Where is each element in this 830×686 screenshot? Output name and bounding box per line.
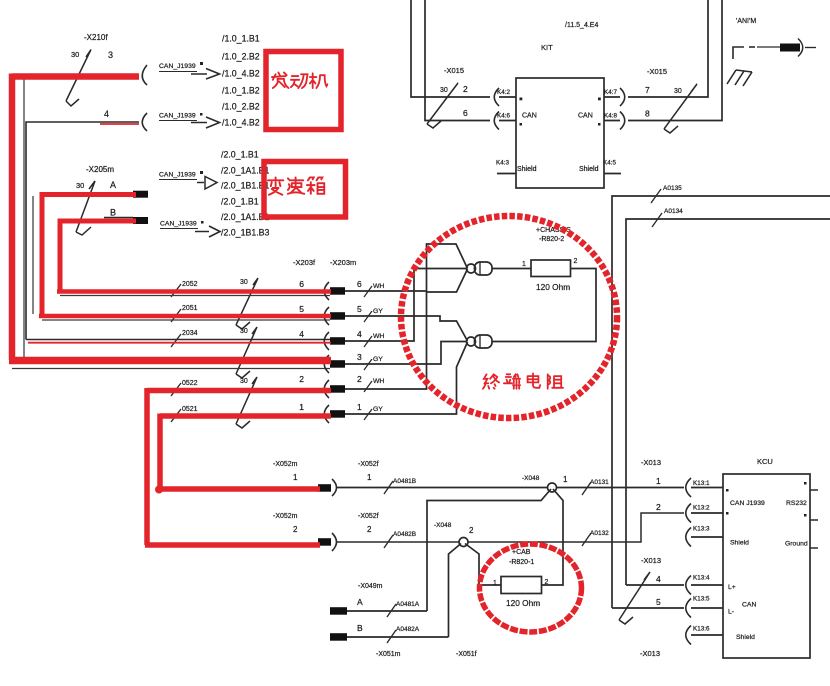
connector arc X210f pin3 <box>142 65 147 85</box>
net list /2.0 gearbox <box>221 150 270 238</box>
svg-text:K13:6: K13:6 <box>693 626 710 633</box>
svg-text:120 Ohm: 120 Ohm <box>506 598 540 608</box>
connector X203 row6: arc and tip <box>324 282 329 300</box>
wire pin5 GY to splice S2 <box>345 316 468 341</box>
KIT left feed wire K4:6 <box>425 0 490 121</box>
splice bullet S1 <box>467 262 493 275</box>
svg-text:K13:3: K13:3 <box>693 526 710 533</box>
svg-text:CAN_J1939: CAN_J1939 <box>159 172 196 179</box>
switch 30 rows 2-1 <box>236 377 257 428</box>
connector X049m pin A tip <box>330 607 347 615</box>
resistor R820-1 <box>493 549 549 608</box>
connector X203 row4 <box>324 332 329 350</box>
svg-text:K4:3: K4:3 <box>496 160 509 167</box>
label CAN_J1939 - (gearbox) <box>160 221 220 238</box>
svg-text:-X048: -X048 <box>522 475 540 482</box>
wire A0481B / A0131 <box>337 487 684 489</box>
svg-text:1: 1 <box>563 475 568 484</box>
svg-text:B: B <box>357 623 363 633</box>
connector X203 row2 <box>324 380 329 398</box>
svg-text:/1.0_2.B2: /1.0_2.B2 <box>222 102 260 112</box>
red bus X203 row6 2052 highlight <box>57 289 331 294</box>
svg-text:3: 3 <box>357 352 362 362</box>
svg-text:Shield: Shield <box>736 634 755 641</box>
label WH row4 <box>364 333 384 347</box>
svg-text:L-: L- <box>728 609 734 616</box>
svg-text:30: 30 <box>240 378 248 385</box>
svg-text:CAN_J1939: CAN_J1939 <box>159 63 196 70</box>
switch 30 at -X205m <box>76 181 95 235</box>
svg-text:WH: WH <box>373 378 384 385</box>
svg-text:A0481B: A0481B <box>393 478 416 485</box>
label WH row2 <box>364 378 384 392</box>
svg-text:2: 2 <box>656 502 661 512</box>
svg-text:GY: GY <box>373 308 383 315</box>
svg-text:5: 5 <box>656 597 661 607</box>
svg-text:-R820-2: -R820-2 <box>539 236 564 243</box>
red bus 0522 to X052-2 <box>145 388 331 545</box>
svg-text:-X203m: -X203m <box>330 258 356 267</box>
svg-text:-X052m: -X052m <box>273 513 298 520</box>
label GY row3 <box>364 356 383 370</box>
svg-text:2: 2 <box>545 579 549 586</box>
red bus X210f pin3 highlight <box>12 74 139 361</box>
svg-text:/1.0_4.B2: /1.0_4.B2 <box>222 69 260 79</box>
svg-text:K4:7: K4:7 <box>604 89 617 96</box>
switch 30 at X015 left <box>427 83 458 128</box>
svg-text:-X052m: -X052m <box>273 461 298 468</box>
K13 wires incoming <box>612 585 684 608</box>
svg-text:A: A <box>110 180 116 190</box>
wire X015-7 up <box>628 0 708 97</box>
svg-text:-X052f: -X052f <box>358 461 379 468</box>
svg-text:+CAB: +CAB <box>512 549 531 556</box>
wire label A0135 <box>651 185 682 203</box>
connector arc K4:6 <box>494 112 499 130</box>
svg-text:7: 7 <box>645 85 650 95</box>
svg-text:/11.5_4.E4: /11.5_4.E4 <box>565 22 598 29</box>
svg-text:2: 2 <box>574 258 578 265</box>
wire label A0481A <box>387 601 420 617</box>
wire stub top right <box>805 47 816 49</box>
svg-text:2: 2 <box>357 374 362 384</box>
svg-text:0521: 0521 <box>182 406 198 413</box>
svg-text:0522: 0522 <box>182 380 198 387</box>
connector X052 row2 <box>318 538 331 546</box>
svg-text:CAN: CAN <box>578 113 593 120</box>
wire R820-2 pin2 loop to splice S2 <box>492 269 596 342</box>
connector arc X210f pin4 <box>142 113 147 131</box>
svg-text:-R820-1: -R820-1 <box>509 559 534 566</box>
label CAN_J1939 + (engine) <box>159 62 220 79</box>
labels X052 row2 <box>273 513 379 534</box>
ferrite pin top right <box>757 46 780 48</box>
left pin numbers X203f <box>299 279 304 412</box>
wire label A0131 <box>582 479 609 495</box>
svg-text:'ANI'M: 'ANI'M <box>736 18 756 25</box>
red frame engine <box>266 52 341 130</box>
switch 30 at X015 right <box>664 84 697 133</box>
node X048-2 right branch down to R820-1 pin1 <box>465 544 501 586</box>
svg-text:GY: GY <box>373 356 383 363</box>
red bus X205m pin B highlight <box>60 219 136 293</box>
switch 30 rows 6-5 <box>236 278 258 329</box>
wire A0135 <box>612 196 830 608</box>
red bus X203 row3 highlight <box>9 357 331 365</box>
svg-text:30: 30 <box>440 87 448 94</box>
wire label 2034 <box>171 330 198 347</box>
svg-text:2: 2 <box>367 525 372 534</box>
labels -X013 top group <box>641 458 661 512</box>
connector K13:6 <box>686 626 691 645</box>
red bus X205m pin A highlight <box>42 192 136 318</box>
svg-text:A0482B: A0482B <box>393 531 416 538</box>
svg-text:-X205m: -X205m <box>86 165 114 174</box>
svg-text:Ground: Ground <box>785 541 808 548</box>
wire label A0482A <box>387 626 420 643</box>
wire 2034 black <box>26 339 330 341</box>
svg-text:WH: WH <box>373 283 384 290</box>
wire A0134 <box>626 219 830 585</box>
wire pin2 WH to splice S1 <box>345 269 468 389</box>
wires KIT right side <box>604 97 620 121</box>
svg-text:/1.0_2.B2: /1.0_2.B2 <box>222 52 260 62</box>
connector K13:4 <box>686 576 691 595</box>
red frame gearbox <box>264 162 346 218</box>
svg-text:/1.0_1.B1: /1.0_1.B1 <box>222 34 260 44</box>
svg-text:30: 30 <box>71 50 79 59</box>
svg-text:30: 30 <box>76 181 84 190</box>
svg-text:30: 30 <box>240 279 248 286</box>
labels -X013 mid group <box>641 556 661 607</box>
black wire stub pin B <box>104 217 133 219</box>
svg-text:CAN_J1939: CAN_J1939 <box>159 113 196 120</box>
wire label A0481B <box>384 478 416 494</box>
svg-text:K13:1: K13:1 <box>693 480 710 487</box>
svg-text:K13:4: K13:4 <box>693 575 710 582</box>
svg-text:-X015: -X015 <box>647 67 667 76</box>
svg-text:1: 1 <box>357 402 362 412</box>
connector K13:5 <box>686 599 691 618</box>
wire A0482B / A0132 <box>337 513 684 542</box>
wire label 0521 <box>171 406 198 422</box>
svg-text:CAN: CAN <box>522 113 537 120</box>
net list /1.0 engine <box>222 34 260 128</box>
svg-text:A0132: A0132 <box>590 530 609 537</box>
svg-text:-X015: -X015 <box>444 66 464 75</box>
red text gearbox: bian su xiang <box>268 177 324 194</box>
labels X052 row1 <box>273 461 379 482</box>
connector X203 row3 <box>324 355 329 373</box>
svg-text:2: 2 <box>299 374 304 384</box>
pin tip X205m B <box>133 217 148 224</box>
KCU right stubs <box>810 490 818 548</box>
svg-text:A0482A: A0482A <box>396 626 420 633</box>
svg-text:RS232: RS232 <box>786 500 807 507</box>
svg-text:8: 8 <box>645 109 650 119</box>
wire pin4 WH to splice S1 <box>345 269 468 342</box>
svg-text:A0135: A0135 <box>663 185 682 192</box>
right pin numbers X203m <box>357 279 362 412</box>
svg-text:-X049m: -X049m <box>358 583 383 590</box>
svg-text:5: 5 <box>357 304 362 314</box>
svg-text:A0134: A0134 <box>664 208 683 215</box>
svg-text:3: 3 <box>108 50 113 60</box>
label GY row1 <box>364 406 383 420</box>
splice bullet S2 <box>467 335 493 348</box>
red ellipse terminal resistor R820-2 <box>401 216 617 418</box>
label -X015 right <box>645 67 682 119</box>
svg-text:4: 4 <box>656 574 661 584</box>
svg-text:CAN: CAN <box>742 602 756 609</box>
svg-text:CAN J1939: CAN J1939 <box>730 500 765 507</box>
connector -X205m labels <box>76 165 116 218</box>
wires arcs into KIT box <box>499 97 516 121</box>
svg-text:2: 2 <box>463 84 468 94</box>
connector arc K4:8 <box>620 112 625 130</box>
svg-text:-X052f: -X052f <box>358 513 379 520</box>
second thin vertical black wire <box>32 196 34 314</box>
label CAN_J1939 + (gearbox) <box>159 171 217 189</box>
pin tip X205m A <box>133 191 148 198</box>
dashed bracket top right <box>733 47 744 59</box>
svg-text:/2.0_1B1.B3: /2.0_1B1.B3 <box>221 228 270 238</box>
wire label A0482B <box>384 531 416 548</box>
chassis ground top right <box>727 70 752 86</box>
label -X015 left <box>440 66 468 118</box>
svg-text:-X013: -X013 <box>641 458 661 467</box>
svg-text:4: 4 <box>299 329 304 339</box>
connector X049m pin B tip <box>330 633 347 641</box>
svg-text:K13:5: K13:5 <box>693 596 710 603</box>
svg-text:K4:5: K4:5 <box>603 160 616 167</box>
wire label A0134 <box>652 208 683 227</box>
wire pin3 GY to splice S2 <box>345 342 468 365</box>
svg-text:1: 1 <box>293 473 298 482</box>
svg-text:-X051f: -X051f <box>456 651 477 658</box>
KCU inner labels <box>726 482 808 641</box>
svg-text:K13:2: K13:2 <box>693 505 710 512</box>
svg-text:Shield: Shield <box>730 540 749 547</box>
svg-text:1: 1 <box>522 261 526 268</box>
svg-text:2051: 2051 <box>182 305 198 312</box>
wire label 2052 <box>171 281 198 297</box>
K13 labels <box>693 480 710 633</box>
svg-text:/2.0_1.B1: /2.0_1.B1 <box>221 150 259 160</box>
label WH row6 <box>364 283 384 297</box>
node X048-1 labels <box>522 475 568 484</box>
node X048-1 right branch down to R820-1 pin2 <box>542 489 564 585</box>
svg-text:1: 1 <box>299 402 304 412</box>
node X048-1 circle <box>548 483 557 492</box>
KIT box <box>516 78 604 188</box>
svg-text:Shield: Shield <box>517 166 537 173</box>
svg-text:1: 1 <box>493 580 497 587</box>
svg-text:K4:8: K4:8 <box>604 113 617 120</box>
connector labels -X203f -X203m <box>293 258 356 267</box>
KIT box inner labels <box>517 98 601 174</box>
connector -X210f label <box>71 33 113 119</box>
svg-text:5: 5 <box>299 304 304 314</box>
KCU box <box>723 474 810 658</box>
svg-text:GY: GY <box>373 406 383 413</box>
svg-text:L+: L+ <box>728 584 736 591</box>
labels X049m <box>357 583 383 633</box>
black wire underlines left rows <box>12 296 330 369</box>
connector X203 row1 <box>324 405 329 423</box>
svg-text:1: 1 <box>656 476 661 486</box>
resistor R820-2 <box>522 227 578 292</box>
switch at X013 4-5 <box>619 572 650 624</box>
red text terminal resistor: zhong duan dian zu <box>483 373 563 388</box>
wire label 0522 <box>171 380 198 396</box>
red corner dot X052-1 <box>155 486 163 494</box>
svg-text:/1.0_4.B2: /1.0_4.B2 <box>222 118 260 128</box>
svg-text:CAN_J1939: CAN_J1939 <box>160 221 197 228</box>
svg-text:-X203f: -X203f <box>293 258 316 267</box>
red thin X203 row4 2034 highlight <box>28 342 331 344</box>
svg-text:-X051m: -X051m <box>376 651 401 658</box>
svg-text:4: 4 <box>104 109 109 119</box>
KIT box title <box>541 22 598 52</box>
svg-text:120 Ohm: 120 Ohm <box>536 282 570 292</box>
svg-text:B: B <box>110 208 116 218</box>
switch 30 at -X210f <box>66 50 91 107</box>
labels K4 right <box>603 89 617 167</box>
svg-text:30: 30 <box>674 88 682 95</box>
svg-text:2034: 2034 <box>182 330 198 337</box>
svg-text:Shield: Shield <box>579 166 599 173</box>
svg-text:KCU: KCU <box>757 457 773 466</box>
wire A0481A up to node X048-1 <box>347 489 551 611</box>
svg-text:4: 4 <box>357 329 362 339</box>
switch 30 rows 4-3 <box>236 327 257 378</box>
svg-text:2052: 2052 <box>182 281 198 288</box>
svg-text:-X013: -X013 <box>641 556 661 565</box>
svg-text:A: A <box>357 597 363 607</box>
svg-text:K4:2: K4:2 <box>497 89 510 96</box>
svg-text:1: 1 <box>367 473 372 482</box>
svg-text:/2.0_1.B1: /2.0_1.B1 <box>221 197 259 207</box>
red ellipse terminal resistor R820-1 <box>480 544 582 632</box>
connector X203 row5 <box>324 307 329 325</box>
KIT shield stub wires <box>497 173 621 175</box>
connector arc K4:2 <box>494 88 499 106</box>
svg-text:6: 6 <box>463 108 468 118</box>
wire pin6 WH to splice S1 <box>345 244 468 291</box>
connector K13:3 <box>686 528 691 547</box>
KIT left feed wire K4:2 <box>411 0 490 97</box>
svg-text:6: 6 <box>357 279 362 289</box>
node X048-2 labels <box>434 522 474 535</box>
svg-text:30: 30 <box>240 328 248 335</box>
wire X015-8 up <box>628 0 722 121</box>
connector X052 row1: tip and arc <box>318 484 331 492</box>
wire S1 to R820-2 <box>492 268 531 270</box>
svg-text:2: 2 <box>469 526 474 535</box>
svg-text:-X210f: -X210f <box>84 33 108 42</box>
wire label A0132 <box>582 530 609 546</box>
svg-text:KIT: KIT <box>541 43 553 52</box>
wire CAN+ engine pin3 black underlay <box>23 78 25 360</box>
connector arc K4:7 <box>620 88 625 106</box>
svg-text:-X013: -X013 <box>640 649 660 658</box>
label CAN_J1939 - (engine) <box>159 113 220 129</box>
label GY row5 <box>364 308 383 322</box>
connector K13:1 <box>686 478 691 497</box>
red bus 0521 to X052-1 <box>158 414 331 490</box>
node X048-2 circle <box>459 538 468 547</box>
connector arc top right <box>798 39 803 57</box>
svg-text:-X048: -X048 <box>434 522 452 529</box>
svg-text:A0481A: A0481A <box>396 601 420 608</box>
svg-text:A0131: A0131 <box>590 479 609 486</box>
svg-text:/1.0_1.B2: /1.0_1.B2 <box>222 86 260 96</box>
wire label 2051 <box>171 305 198 322</box>
red text engine: fa dong ji <box>272 72 327 88</box>
wire CAN- engine pin4: X210f pin4 to row 2034 <box>26 122 139 340</box>
red thin X210f pin4 highlight <box>100 123 139 125</box>
labels K4 left <box>496 89 510 167</box>
wire pin1 GY to splice S2 <box>345 342 468 414</box>
svg-text:WH: WH <box>373 333 384 340</box>
svg-text:2: 2 <box>293 525 298 534</box>
red bus X203 row5 2051 highlight <box>39 314 331 319</box>
wire A0482A up to node X048-2 <box>347 544 461 638</box>
svg-text:K4:6: K4:6 <box>497 113 510 120</box>
svg-text:6: 6 <box>299 279 304 289</box>
connector K13:2 <box>686 504 691 523</box>
